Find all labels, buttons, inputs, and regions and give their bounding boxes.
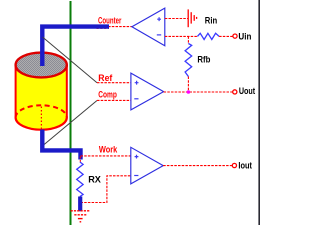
svg-text:Uout: Uout — [239, 86, 256, 97]
terminal Uin — [233, 34, 237, 38]
svg-text:Counter: Counter — [98, 15, 122, 26]
wire: U1 + input to signal ground — [165, 18, 188, 20]
electrochemical cell body — [16, 65, 67, 130]
wire: RX bottom lead red — [79, 197, 81, 203]
right frame line — [258, 0, 260, 225]
wire: U2 output to Uout — [164, 91, 233, 93]
svg-text:Rfb: Rfb — [197, 54, 210, 65]
callout line to Comp — [44, 101, 97, 145]
terminal Iout — [232, 163, 236, 167]
wire: current sense feedback to U3 - input — [81, 176, 131, 203]
resistor Rfb — [185, 44, 192, 77]
wire: Work net — [81, 155, 131, 157]
node: feedback junction — [187, 90, 191, 94]
cell bottom edge (solid) — [16, 118, 67, 130]
cell side edges — [15, 65, 17, 118]
svg-text:Iout: Iout — [238, 161, 252, 172]
ground (earth, bottom) — [71, 211, 90, 222]
green vertical reference line — [70, 1, 72, 225]
wire: Comp net — [97, 99, 131, 101]
op-amp U3 (current follower to Iout) — [131, 147, 163, 184]
cell top ellipse — [16, 53, 67, 78]
wire: counter net (red, under blue wire) — [97, 26, 132, 28]
wire: Rfb bottom lead — [187, 77, 189, 93]
wire: U3 output to Iout — [163, 165, 232, 167]
svg-text:Uin: Uin — [238, 31, 251, 42]
callout line to Ref — [43, 37, 98, 83]
resistor RX — [77, 162, 83, 197]
svg-text:Work: Work — [99, 144, 118, 155]
wire: counter electrode thick blue — [42, 27, 109, 66]
op-amp U2 (voltage follower to Uout) — [131, 73, 164, 110]
wire: RX top lead — [79, 157, 81, 163]
ground (signal, rotated) — [188, 9, 196, 27]
svg-text:Rin: Rin — [205, 16, 218, 27]
resistor Rin — [197, 33, 219, 39]
wire: work electrode thick blue — [42, 130, 80, 160]
op-amp U1 (control amp, output to counter) — [132, 8, 165, 46]
cell axis dotted line — [40, 107, 42, 130]
terminal Uout — [233, 90, 237, 94]
svg-text:Comp: Comp — [98, 90, 117, 101]
wire: ground lead thick blue — [78, 197, 82, 212]
svg-text:Ref: Ref — [98, 73, 113, 84]
wire: Ref net — [97, 82, 131, 84]
svg-text:RX: RX — [88, 174, 101, 185]
wire: Rfb top lead — [187, 36, 189, 44]
wire: U1 - input rail — [165, 35, 198, 37]
cell bottom ellipse hidden edge (dashed) — [16, 105, 67, 117]
